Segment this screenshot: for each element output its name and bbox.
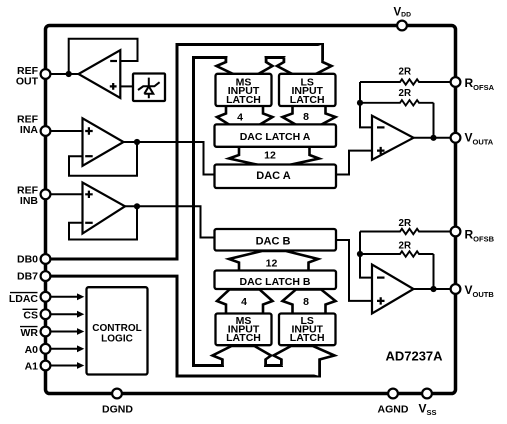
svg-text:12: 12 <box>266 258 278 270</box>
junction dot U3 output <box>134 203 140 209</box>
bus arrow into MS INPUT LATCH B bottom <box>213 346 272 366</box>
wire rail2 vertical <box>192 58 195 366</box>
op-amp U3 REF INB buffer <box>83 183 126 234</box>
pin VSS <box>422 389 432 399</box>
resistor 2R top A <box>360 79 450 84</box>
svg-text:INB: INB <box>20 195 39 207</box>
pin REF OUT <box>41 69 51 79</box>
pin VOUTB <box>451 284 461 294</box>
junction dot left node B <box>357 251 363 257</box>
svg-text:OUT: OUT <box>16 75 39 87</box>
pin REF INA <box>41 126 51 136</box>
CONTROL INPUT ARROWS <box>50 297 78 366</box>
wire output A to VOUTA pin <box>414 137 451 139</box>
wire U3 output to DAC B ref input <box>125 206 215 237</box>
BOXES <box>87 74 337 375</box>
wire U2 output to DAC A ref input <box>124 142 215 175</box>
wire output B to VOUTB pin <box>414 288 451 290</box>
op-amp A1 output amp <box>372 116 414 160</box>
pin DB0 <box>41 254 51 264</box>
wire U1 + input to zener box <box>120 85 133 87</box>
svg-text:DAC B: DAC B <box>256 236 291 248</box>
box zener reference <box>133 74 165 102</box>
wire U1 output to REF OUT pin <box>50 73 78 75</box>
pin REF INB <box>41 189 51 199</box>
junction dot U1 output <box>66 71 72 77</box>
arrowhead CS <box>77 311 84 318</box>
svg-text:A1: A1 <box>25 361 39 373</box>
svg-text:LOGIC: LOGIC <box>101 334 133 345</box>
wire A0 to control logic <box>50 348 78 350</box>
svg-text:2R: 2R <box>399 218 412 229</box>
box LS INPUT LATCH A <box>279 74 336 106</box>
REF INB BUFFER <box>50 183 214 240</box>
wire left node vertical A <box>360 82 372 127</box>
svg-text:LDAC: LDAC <box>9 293 39 305</box>
pin DB7 <box>41 271 51 281</box>
svg-text:12: 12 <box>264 150 276 162</box>
wire WR to control logic <box>50 331 78 333</box>
BOX TEXTS <box>92 77 443 364</box>
pin VOUTA <box>451 133 461 143</box>
svg-text:LATCH: LATCH <box>226 332 261 344</box>
box DAC B <box>215 229 337 251</box>
arrowhead A1 <box>77 362 84 369</box>
wire inner bottom bus line from rail2 to MS-B arrow <box>194 360 223 366</box>
wire DAC B out to + input B <box>336 240 372 301</box>
arrowhead LDAC <box>77 293 84 300</box>
resistor 2R bottom B <box>360 251 434 256</box>
svg-text:4: 4 <box>241 296 247 308</box>
wire U1 feedback loop <box>69 39 138 74</box>
pin WR <box>41 327 51 337</box>
wire bridge MS-A to LS-A <box>266 58 284 63</box>
box LS INPUT LATCH B <box>279 314 336 346</box>
label minus A1 <box>377 126 385 128</box>
zener diode symbol <box>138 78 160 99</box>
pin ROFSB <box>451 227 461 237</box>
svg-text:2R: 2R <box>399 66 412 77</box>
label minus U3 <box>85 222 93 224</box>
wire inner top bus line from rail2 to MS-A arrow <box>194 58 227 63</box>
svg-text:AD7237A: AD7237A <box>385 349 443 364</box>
pin ROFSA <box>451 77 461 87</box>
OUTPUT AMP A <box>336 79 450 174</box>
bus arrow 8 from LS-B up into DAC LATCH B <box>283 289 336 313</box>
box CONTROL LOGIC <box>87 287 148 374</box>
OUTPUT AMP B <box>336 229 450 314</box>
junction dot left node A <box>357 100 363 106</box>
svg-text:8: 8 <box>303 111 309 123</box>
arrowhead WR <box>77 328 84 335</box>
svg-text:DB0: DB0 <box>17 253 38 265</box>
wire DB0 rail: pin to vertical riser to top outer bus line <box>50 45 322 260</box>
wire A1 to control logic <box>50 365 78 367</box>
label minus U2 <box>85 155 93 157</box>
svg-text:DAC LATCH A: DAC LATCH A <box>240 131 311 143</box>
svg-text:WR: WR <box>21 327 39 339</box>
chip outline border <box>46 26 456 394</box>
wire U3 feedback loop <box>69 206 137 239</box>
PIN CIRCLES <box>41 21 461 399</box>
svg-text:LATCH: LATCH <box>226 94 261 106</box>
svg-text:LATCH: LATCH <box>290 94 325 106</box>
pin LDAC <box>41 292 51 302</box>
label plus A2 <box>377 297 385 304</box>
op-amp U1 reference buffer (points left) <box>79 50 121 98</box>
svg-text:CONTROL: CONTROL <box>92 323 141 334</box>
label plus A1 <box>377 147 385 154</box>
BUS LINES <box>50 45 322 377</box>
svg-text:DAC LATCH B: DAC LATCH B <box>240 276 311 288</box>
label minus A2 <box>377 277 385 279</box>
wire left node vertical B <box>360 232 372 278</box>
bus arrow 8 from LS-A into DAC LATCH A <box>283 106 336 125</box>
wire 2R to output node B <box>433 254 435 289</box>
box MS INPUT LATCH A <box>216 74 272 106</box>
label minus U1 <box>110 60 117 62</box>
bus arrow 12 from DAC LATCH B up into DAC B <box>229 251 318 271</box>
wire 2R to output node A <box>433 103 435 138</box>
svg-text:DB7: DB7 <box>17 271 38 283</box>
svg-text:A0: A0 <box>25 344 39 356</box>
box MS INPUT LATCH B <box>216 314 272 346</box>
overline WR <box>20 326 38 328</box>
svg-text:CS: CS <box>23 310 38 322</box>
resistor 2R top B <box>360 229 450 234</box>
bus arrow into LS INPUT LATCH B bottom <box>274 346 335 376</box>
box DAC LATCH A <box>215 124 337 146</box>
op-amp A2 output amp <box>372 265 414 314</box>
junction dot output node B <box>430 286 436 292</box>
bus arrow 4 from MS-B up into DAC LATCH B <box>217 289 273 313</box>
BUS ARROWS (white filled, open necks) <box>213 45 336 377</box>
wire bridge MS-B to LS-B <box>266 360 282 366</box>
svg-text:INA: INA <box>20 124 39 136</box>
svg-text:DAC A: DAC A <box>256 170 290 182</box>
svg-text:AGND: AGND <box>378 404 409 416</box>
bus arrow 4 from MS-A into DAC LATCH A <box>217 106 273 125</box>
wire U2 feedback loop <box>69 142 137 176</box>
pin AGND <box>388 389 398 399</box>
resistor 2R bottom A <box>360 100 434 105</box>
pin VDD <box>397 21 407 31</box>
bus arrow 12 from DAC LATCH A into DAC A <box>229 147 319 166</box>
svg-text:DGND: DGND <box>102 404 133 416</box>
svg-text:8: 8 <box>303 296 309 308</box>
bus arrow into LS INPUT LATCH A top <box>277 45 332 75</box>
svg-text:LATCH: LATCH <box>290 332 325 344</box>
wire REF INA pin to + input <box>50 130 82 132</box>
pin A0 <box>41 344 51 354</box>
box DAC A <box>215 165 337 189</box>
REF OUT BUFFER AMP <box>50 39 159 98</box>
op-amp U2 REF INA buffer <box>83 118 124 166</box>
pin A1 <box>41 361 51 371</box>
wire DAC A out to + input A <box>336 151 372 175</box>
bus arrow into MS INPUT LATCH A top <box>217 58 273 75</box>
label plus U2 <box>85 127 93 134</box>
svg-text:2R: 2R <box>399 241 412 252</box>
wire DB7 rail: pin to vertical to bottom outer bus line <box>50 276 319 376</box>
pin CS <box>41 309 51 319</box>
svg-text:2R: 2R <box>399 88 412 99</box>
label plus U1 <box>110 83 117 90</box>
overline CS <box>23 308 38 310</box>
pin DGND <box>112 389 122 399</box>
wire LDAC to control logic <box>50 296 78 298</box>
junction dot output node A <box>430 135 436 141</box>
label plus U3 <box>85 191 93 198</box>
arrowhead A0 <box>77 345 84 352</box>
wire CS to control logic <box>50 313 78 315</box>
junction dot U2 output <box>134 139 140 145</box>
PIN LABELS LEFT <box>9 65 39 373</box>
wire REF INB pin to + input <box>50 193 82 195</box>
box DAC LATCH B <box>215 271 337 290</box>
REF INA BUFFER <box>50 118 214 175</box>
overline LDAC <box>10 292 38 294</box>
svg-text:4: 4 <box>237 112 243 124</box>
